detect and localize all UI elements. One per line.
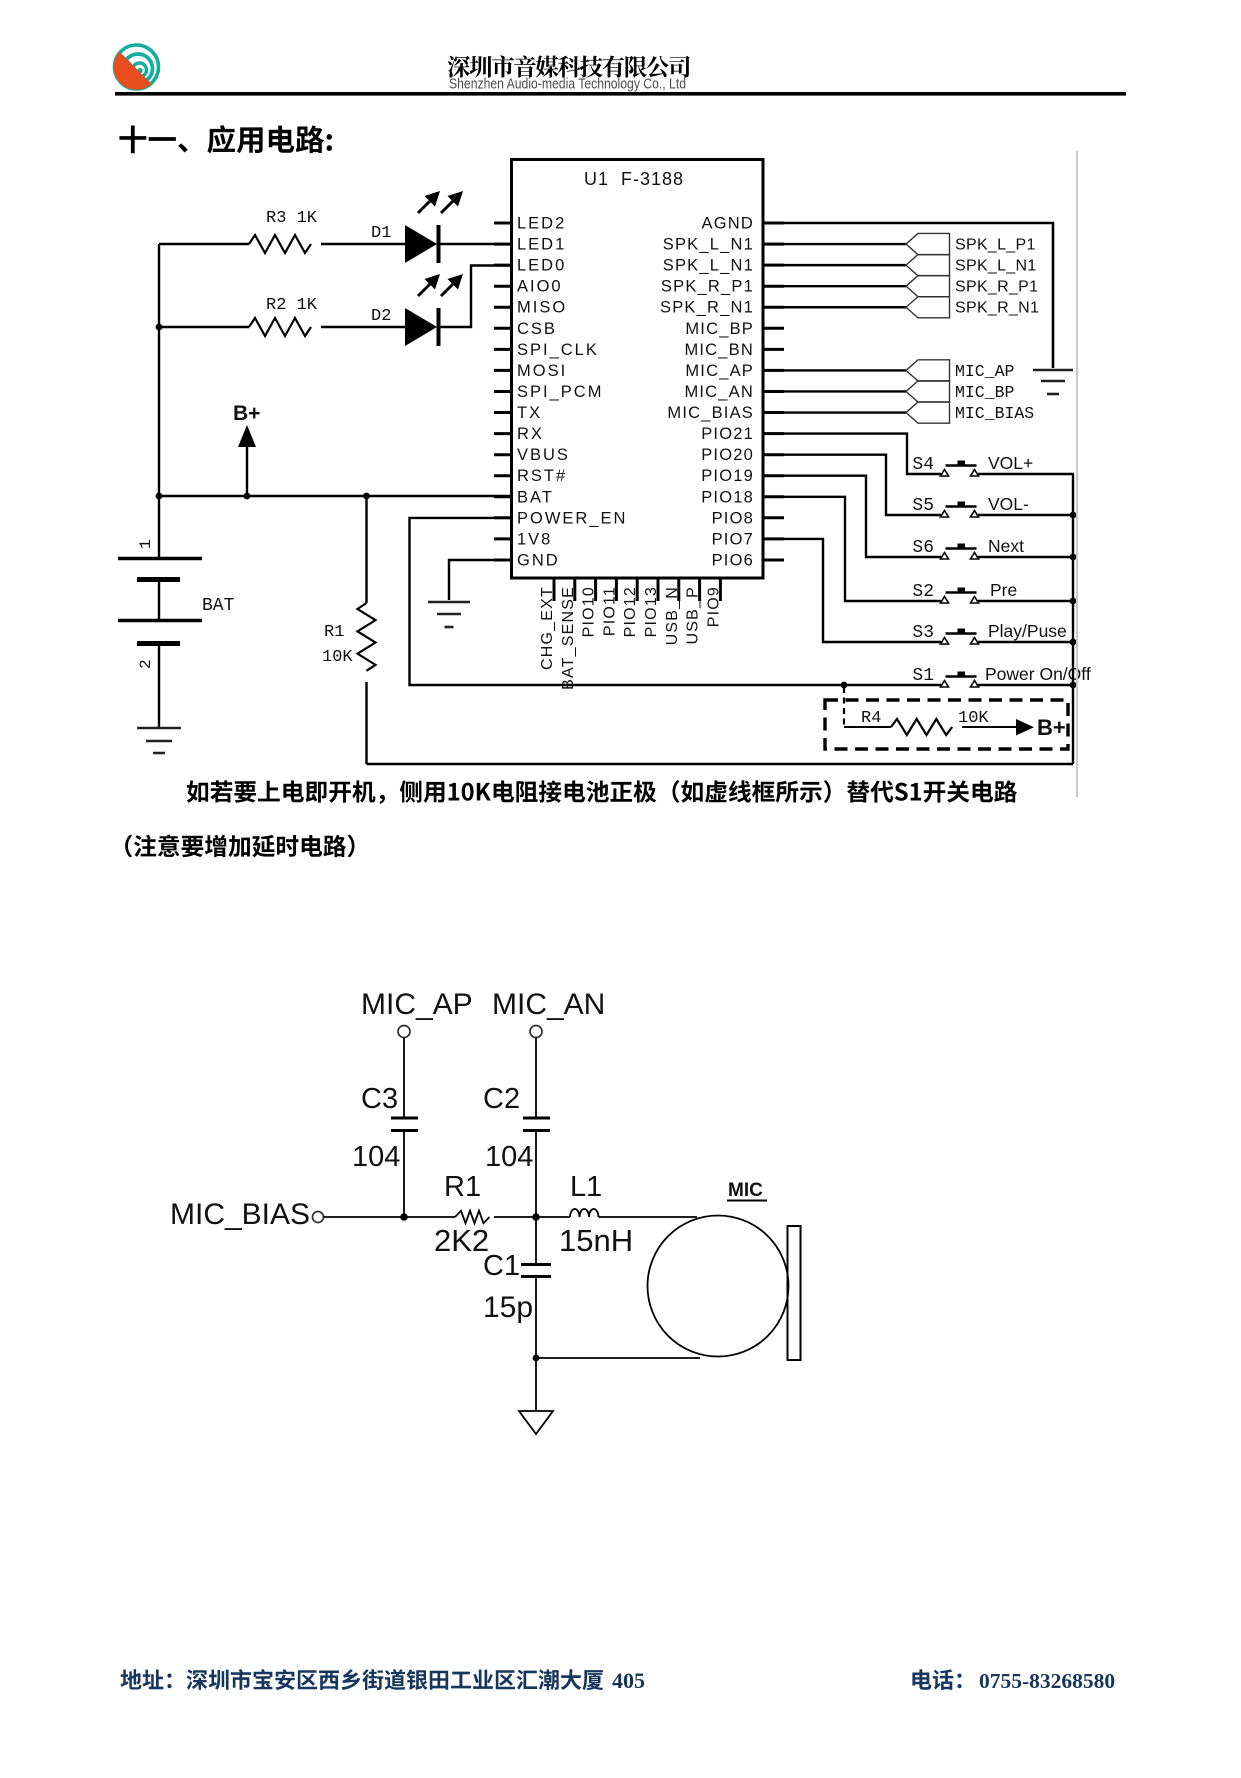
svg-text:MIC_BN: MIC_BN <box>684 341 754 359</box>
note （注意要增加延时电路） <box>125 835 354 858</box>
op-amp U1 F-3188 IC body <box>512 160 764 579</box>
wire to connector MIC_BP <box>763 390 906 392</box>
svg-text:MIC_BIAS: MIC_BIAS <box>170 1198 310 1231</box>
pin AGND (right) <box>702 215 784 233</box>
switch S4 VOL+ <box>912 453 1033 476</box>
pin PIO10 (bottom) <box>581 578 598 637</box>
wire PIO20 to switch S5 <box>763 455 941 515</box>
connector SPK_L_P1 <box>906 233 1036 254</box>
pin MIC_BIAS (right) <box>667 404 784 422</box>
svg-text:15p: 15p <box>483 1291 533 1324</box>
pin LED0 (left) <box>494 257 566 275</box>
svg-text:TX: TX <box>517 404 542 422</box>
pin SPK_L_N1 (right) <box>663 236 784 254</box>
svg-text:15nH: 15nH <box>559 1223 633 1258</box>
svg-text:C2: C2 <box>483 1083 520 1115</box>
wire D2 row <box>159 326 249 328</box>
capacitor C2 104 <box>483 1083 550 1173</box>
pin PIO9 (bottom) <box>705 578 722 627</box>
svg-text:B+: B+ <box>1037 715 1066 740</box>
pin AIO0 (left) <box>494 278 563 296</box>
connector SPK_R_P1 <box>906 276 1038 297</box>
BAT rail wire to BAT pin <box>159 495 512 498</box>
svg-text:104: 104 <box>352 1141 400 1173</box>
svg-text:MIC_AN: MIC_AN <box>684 383 754 401</box>
pin MIC_BP (right) <box>685 320 784 338</box>
svg-text:R3 1K: R3 1K <box>266 209 318 228</box>
pin GND (left) <box>494 551 560 569</box>
wire MIC_AP to C3 <box>403 1038 405 1117</box>
pin PIO7 (right) <box>712 530 784 548</box>
svg-text:PIO10: PIO10 <box>581 586 598 637</box>
svg-text:PIO19: PIO19 <box>701 467 754 485</box>
junction on left vertical at D2 row <box>156 324 163 331</box>
svg-text:1V8: 1V8 <box>517 530 552 548</box>
wire MIC_AN to C2 <box>535 1038 537 1117</box>
wire switch S3 to rail <box>978 641 1074 643</box>
svg-text:Power On/Off: Power On/Off <box>985 664 1091 684</box>
wire D2 to LED0 pin <box>438 266 512 328</box>
svg-text:Shenzhen Audio-media Technolog: Shenzhen Audio-media Technology Co., Ltd <box>449 77 686 93</box>
pin USB_P (bottom) <box>685 578 702 644</box>
svg-text:Pre: Pre <box>990 580 1017 600</box>
wire PIO18 to switch S2 <box>763 497 941 601</box>
svg-text:MIC_BIAS: MIC_BIAS <box>955 404 1034 423</box>
svg-text:L1: L1 <box>570 1171 602 1203</box>
title 十一、应用电路: <box>119 125 332 153</box>
pin MIC_AP (right) <box>685 362 784 380</box>
junction rail y=685 <box>1070 682 1077 689</box>
svg-text:SPK_R_N1: SPK_R_N1 <box>660 299 754 317</box>
switch S2 Pre <box>912 580 1017 603</box>
resistor R4 10K <box>861 709 989 735</box>
svg-text:R2 1K: R2 1K <box>266 296 318 315</box>
wire AGND to ground <box>763 223 1053 368</box>
resistor R1 2K2 <box>434 1171 490 1258</box>
earth ground (mic) <box>519 1411 553 1434</box>
wire to connector MIC_BIAS <box>763 411 906 413</box>
svg-text:0755-83268580: 0755-83268580 <box>979 1669 1115 1693</box>
pin RX (left) <box>494 425 544 443</box>
microphone MIC <box>648 1180 801 1360</box>
capacitor C3 104 <box>352 1083 418 1173</box>
pin CHG_EXT (bottom) <box>539 578 556 670</box>
svg-text:R1: R1 <box>324 623 344 642</box>
dashed tap wire <box>843 687 845 727</box>
svg-text:2: 2 <box>137 659 155 669</box>
svg-text:C1: C1 <box>483 1250 520 1282</box>
svg-text:SPK_L_N1: SPK_L_N1 <box>663 257 754 275</box>
svg-text:Next: Next <box>988 536 1024 556</box>
svg-text:AIO0: AIO0 <box>517 278 563 296</box>
footer address 地址：... <box>121 1669 604 1690</box>
svg-text:LED1: LED1 <box>517 236 566 254</box>
wire tap to R4 <box>844 726 891 728</box>
svg-text:PIO9: PIO9 <box>705 586 722 627</box>
svg-text:MIC_AN: MIC_AN <box>492 988 605 1021</box>
svg-text:C3: C3 <box>361 1083 398 1115</box>
node MIC_BIAS <box>170 1198 324 1231</box>
pin PIO13 (bottom) <box>643 578 660 637</box>
svg-text:SPK_L_P1: SPK_L_P1 <box>955 237 1036 254</box>
node MIC_AP <box>361 988 473 1038</box>
company name 深圳市音媒科技有限公司 <box>448 56 690 78</box>
wire R2 to D2 <box>321 326 405 328</box>
pin PIO6 (right) <box>712 551 784 569</box>
svg-text:MIC_BP: MIC_BP <box>685 320 754 338</box>
switch S6 Next <box>912 536 1024 559</box>
dashed option box <box>825 700 1068 749</box>
wire L1 to MIC <box>599 1216 698 1218</box>
wire from B+ rail up to D1 row (left vertical) <box>158 244 160 496</box>
switch S5 VOL- <box>912 494 1029 517</box>
bottom loop wire <box>367 763 1074 765</box>
svg-text:CHG_EXT: CHG_EXT <box>539 586 556 670</box>
power arrow B+ (in box) <box>1016 715 1066 740</box>
svg-text:10K: 10K <box>322 648 353 667</box>
svg-text:CSB: CSB <box>517 320 557 338</box>
junction B+ on BAT rail <box>244 493 251 500</box>
wire SPK_L_P1 <box>763 243 906 245</box>
pin SPK_R_P1 (right) <box>661 278 784 296</box>
svg-text:S4: S4 <box>912 455 934 475</box>
wire POWER_EN loop down-left <box>410 518 942 685</box>
svg-text:LED2: LED2 <box>517 215 566 233</box>
svg-text:GND: GND <box>517 551 560 569</box>
pin PIO12 (bottom) <box>622 578 639 637</box>
svg-text:Play/Puse: Play/Puse <box>988 621 1067 641</box>
svg-text:SPK_R_P1: SPK_R_P1 <box>661 278 754 296</box>
svg-text:USB_P: USB_P <box>685 586 702 644</box>
svg-text:VBUS: VBUS <box>517 446 570 464</box>
footer phone 电话： <box>912 1669 961 1690</box>
wire C3 to bias line <box>403 1132 405 1217</box>
svg-text:PIO21: PIO21 <box>701 425 754 443</box>
svg-text:U1: U1 <box>584 169 609 189</box>
svg-text:405: 405 <box>612 1668 645 1693</box>
pin RST# (left) <box>494 467 567 485</box>
svg-text:USB_N: USB_N <box>664 586 681 645</box>
svg-text:SPI_PCM: SPI_PCM <box>517 383 603 401</box>
svg-text:SPK_R_P1: SPK_R_P1 <box>955 279 1038 296</box>
page column divider (gray) <box>1076 151 1078 797</box>
svg-text:R1: R1 <box>444 1171 481 1203</box>
wire PIO19 to switch S6 <box>763 476 941 557</box>
svg-text:SPI_CLK: SPI_CLK <box>517 341 599 359</box>
svg-text:1: 1 <box>137 539 155 549</box>
wire battery to ground <box>158 644 160 727</box>
wire switch S5 to rail <box>978 514 1074 516</box>
junction mic bottom <box>533 1355 540 1362</box>
wire to connector MIC_AP <box>763 369 906 371</box>
wire mic bottom <box>536 1357 700 1359</box>
switch S1 Power On/Off <box>912 664 1090 687</box>
svg-text:S5: S5 <box>912 496 934 516</box>
svg-text:RX: RX <box>517 425 544 443</box>
LED D1 <box>371 191 463 263</box>
pin MOSI (left) <box>494 362 567 380</box>
node MIC_AN <box>492 988 605 1038</box>
svg-text:MIC_AP: MIC_AP <box>955 362 1015 381</box>
wire D1 row <box>159 243 249 245</box>
caption 如若要上电即开机... <box>187 780 1017 804</box>
ground (AGND) <box>1033 370 1073 394</box>
svg-text:POWER_EN: POWER_EN <box>517 509 627 527</box>
svg-text:PIO12: PIO12 <box>622 586 639 637</box>
svg-text:SPK_R_N1: SPK_R_N1 <box>955 300 1039 317</box>
svg-text:MIC_BP: MIC_BP <box>955 383 1015 402</box>
resistor R2 <box>249 296 318 336</box>
wire to earth ground <box>535 1358 537 1411</box>
pin TX (left) <box>494 404 542 422</box>
inductor L1 <box>559 1171 633 1258</box>
wire GND pin to ground <box>449 560 512 600</box>
svg-text:B+: B+ <box>233 402 260 425</box>
connector MIC_BP <box>906 381 1015 402</box>
wire switch S2 to rail <box>978 600 1074 602</box>
pin PIO8 (right) <box>712 509 784 527</box>
pin MIC_BN (right) <box>684 341 784 359</box>
wire MIC_BIAS to R1 <box>324 1216 456 1218</box>
pin PIO18 (right) <box>701 488 784 506</box>
pin MIC_AN (right) <box>684 383 784 401</box>
pin SPI_CLK (left) <box>494 341 599 359</box>
svg-text:PIO18: PIO18 <box>701 488 754 506</box>
connector MIC_AP <box>906 360 1015 381</box>
svg-text:MIC: MIC <box>728 1180 763 1201</box>
pin CSB (left) <box>494 320 557 338</box>
svg-text:RST#: RST# <box>517 467 567 485</box>
svg-text:PIO8: PIO8 <box>712 509 754 527</box>
svg-text:BAT: BAT <box>202 596 235 616</box>
company logo <box>114 45 159 90</box>
wire C1 down <box>535 1278 537 1359</box>
svg-text:PIO13: PIO13 <box>643 586 660 637</box>
wire D1 to LED1 pin <box>438 243 512 245</box>
svg-text:PIO20: PIO20 <box>701 446 754 464</box>
junction rail y=601 <box>1070 598 1077 605</box>
switch S3 Play/Puse <box>912 621 1066 644</box>
pin PIO11 (bottom) <box>601 578 618 636</box>
svg-text:MIC_BIAS: MIC_BIAS <box>667 404 754 422</box>
junction rail y=642 <box>1070 639 1077 646</box>
svg-text:BAT: BAT <box>517 488 554 506</box>
junction rail left end <box>156 493 163 500</box>
wire R1 to L1 <box>494 1216 570 1218</box>
svg-text:R4: R4 <box>861 709 881 728</box>
capacitor C1 15p <box>483 1250 551 1324</box>
junction C2/bias <box>532 1213 540 1221</box>
resistor R1 10K (pull) <box>322 496 376 764</box>
pin PIO19 (right) <box>701 467 784 485</box>
svg-text:PIO11: PIO11 <box>601 586 618 636</box>
svg-text:SPK_L_N1: SPK_L_N1 <box>955 258 1037 275</box>
svg-text:SPK_L_N1: SPK_L_N1 <box>663 236 754 254</box>
resistor R3 <box>249 209 318 253</box>
connector SPK_R_N1 <box>906 297 1039 318</box>
svg-text:S3: S3 <box>912 623 934 643</box>
svg-text:MISO: MISO <box>517 299 567 317</box>
pin LED2 (left) <box>494 215 566 233</box>
junction R1 top on rail <box>363 493 370 500</box>
wire R4 to B+ arrow <box>962 726 1016 728</box>
wire SPK_L_N1 <box>763 264 906 266</box>
svg-text:AGND: AGND <box>702 215 754 233</box>
connector SPK_L_N1 <box>906 255 1037 276</box>
pin BAT (left) <box>494 488 554 506</box>
svg-text:D2: D2 <box>371 307 391 326</box>
pin SPK_R_N1 (right) <box>660 299 784 317</box>
pin PIO20 (right) <box>701 446 784 464</box>
right rail vertical wire <box>1072 474 1074 764</box>
svg-text:MOSI: MOSI <box>517 362 567 380</box>
pin POWER_EN (left) <box>494 509 627 527</box>
wire PIO21 to switch S4 <box>763 434 941 474</box>
pin LED1 (left) <box>494 236 566 254</box>
junction C3/bias <box>400 1213 408 1221</box>
pin SPI_PCM (left) <box>494 383 603 401</box>
header rule <box>115 92 1126 96</box>
junction rail y=515 <box>1070 512 1077 519</box>
svg-text:104: 104 <box>485 1141 533 1173</box>
wire switch S4 to rail <box>978 473 1074 475</box>
pin USB_N (bottom) <box>664 578 681 645</box>
svg-text:10K: 10K <box>958 709 989 728</box>
wire R3 to D1 <box>321 243 405 245</box>
junction S1 dashed tap <box>841 682 848 689</box>
power symbol B+ <box>233 402 260 496</box>
svg-text:2K2: 2K2 <box>434 1223 489 1258</box>
svg-text:S1: S1 <box>912 666 934 686</box>
LED D2 <box>371 274 463 346</box>
wire C2 down through bias node to C1 <box>535 1132 537 1263</box>
svg-text:VOL-: VOL- <box>988 494 1029 514</box>
svg-text:D1: D1 <box>371 224 391 243</box>
pin SPK_L_N1 (right) <box>663 257 784 275</box>
pin 1V8 (left) <box>494 530 552 548</box>
junction rail y=557 <box>1070 554 1077 561</box>
wire switch S6 to rail <box>978 556 1074 558</box>
wire SPK_R_P1 <box>763 285 906 287</box>
svg-text:F-3188: F-3188 <box>621 169 684 189</box>
pin BAT_SENSE (bottom) <box>560 578 577 690</box>
wire PIO7 to switch S3 <box>763 539 941 642</box>
svg-text:S2: S2 <box>912 582 934 602</box>
wire SPK_R_N1 <box>763 306 906 308</box>
ground (battery) <box>137 728 181 753</box>
svg-text:BAT_SENSE: BAT_SENSE <box>560 586 577 690</box>
wire switch S1 to rail <box>978 684 1074 686</box>
battery BAT <box>118 496 235 669</box>
svg-text:PIO6: PIO6 <box>712 551 754 569</box>
svg-text:PIO7: PIO7 <box>712 530 754 548</box>
svg-text:S6: S6 <box>912 538 934 558</box>
svg-text:LED0: LED0 <box>517 257 566 275</box>
svg-text:VOL+: VOL+ <box>988 453 1033 473</box>
connector MIC_BIAS <box>906 402 1034 423</box>
svg-text:MIC_AP: MIC_AP <box>685 362 754 380</box>
pin MISO (left) <box>494 299 567 317</box>
pin PIO21 (right) <box>701 425 784 443</box>
ground (IC GND) <box>428 602 470 627</box>
pin VBUS (left) <box>494 446 570 464</box>
svg-text:MIC_AP: MIC_AP <box>361 988 473 1021</box>
